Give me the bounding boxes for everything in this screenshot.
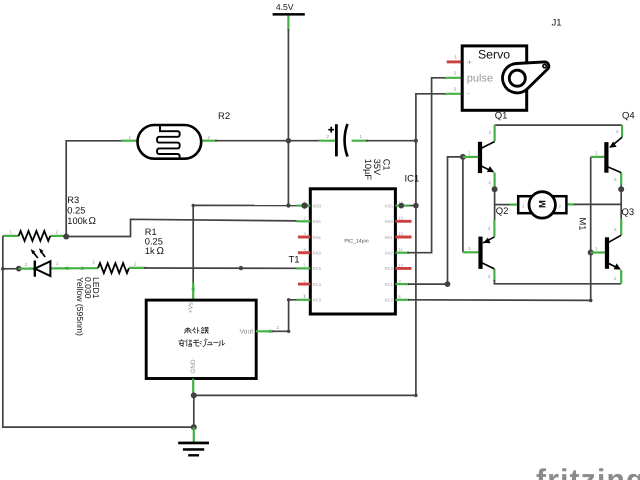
svg-text:1: 1 [468, 246, 471, 251]
svg-text:RA0: RA0 [385, 219, 394, 224]
node Q1 emitter / motor junction [492, 186, 498, 192]
svg-text:2: 2 [327, 134, 330, 139]
svg-text:Q3: Q3 [622, 207, 635, 218]
svg-text:fritzing: fritzing [536, 464, 640, 480]
svg-text:C135V10µF: C135V10µF [363, 159, 392, 181]
wire Q1 collector to Q4 emitter (top rail) [495, 124, 622, 126]
svg-text:Vout: Vout [240, 328, 254, 335]
svg-text:RA2: RA2 [385, 251, 394, 256]
transistor Q4 (PNP mirrored) [591, 125, 622, 185]
svg-text:7: 7 [304, 294, 307, 299]
node Q4 collector junction [618, 186, 624, 192]
svg-text:8: 8 [399, 294, 402, 299]
svg-text:RA1: RA1 [385, 235, 394, 240]
svg-text:R1: R1 [145, 227, 157, 237]
wire LED anode to R1 [64, 267, 98, 269]
wire motor right rail [620, 184, 622, 220]
IR receiver module box [146, 300, 256, 378]
power symbol 4.5V [273, 2, 305, 31]
svg-text:T1: T1 [289, 255, 300, 266]
svg-text:M1: M1 [578, 218, 588, 231]
svg-text:RC2: RC2 [385, 298, 394, 303]
svg-text:2: 2 [134, 262, 137, 267]
svg-text:13: 13 [399, 216, 404, 221]
node R3/LDR junction [63, 234, 69, 240]
transistor Q3 (NPN mirrored) [591, 219, 622, 284]
svg-text:Servo: Servo [478, 47, 510, 61]
wire IC pin9 to Q1/Q2 bases [408, 157, 463, 284]
node Q1 base junction [460, 154, 466, 160]
svg-text:2: 2 [56, 230, 59, 235]
photoresistor R2 (LDR) [129, 125, 211, 160]
svg-text:VSS: VSS [385, 203, 394, 208]
svg-text:2: 2 [614, 276, 617, 281]
svg-text:3: 3 [488, 274, 491, 279]
svg-text:+: + [467, 57, 472, 67]
svg-text:4.5V: 4.5V [276, 2, 294, 12]
svg-text:2: 2 [616, 129, 619, 134]
wire 4.5V rail down to IC pin1 net [287, 29, 289, 206]
wire IC pin8 to Q3/Q4 bases [408, 157, 591, 301]
node GND rail / IC pin14 [413, 203, 418, 208]
wire R3 junction to IC pin2 [66, 219, 296, 236]
wire R1 to IC pin5 (T1 net) [144, 267, 297, 269]
svg-text:0.25: 0.25 [67, 206, 85, 216]
svg-text:0.25: 0.25 [145, 237, 163, 247]
wire R2 right lead to 4.5V junction and C1 [201, 140, 217, 142]
svg-text:9: 9 [399, 278, 402, 283]
wire module Vout to IC pin7 [256, 330, 274, 332]
svg-text:R3: R3 [67, 195, 79, 205]
resistor R1 [93, 260, 147, 274]
svg-text:2: 2 [25, 262, 28, 267]
svg-text:4: 4 [304, 247, 307, 252]
svg-text:Q1: Q1 [495, 110, 508, 121]
svg-text:2: 2 [488, 226, 491, 231]
svg-text:R2: R2 [218, 111, 230, 122]
svg-text:3: 3 [489, 130, 492, 135]
node IC pin1 junction [302, 203, 308, 209]
svg-text:+Vs: +Vs [187, 302, 194, 313]
svg-text:3: 3 [614, 227, 617, 232]
label 赤外線 (IR) [184, 327, 209, 333]
wire module GND to ground [192, 379, 194, 394]
svg-text:3: 3 [614, 177, 617, 182]
svg-text:RC3: RC3 [313, 298, 322, 303]
svg-text:-: - [467, 88, 470, 98]
node IC pin14 junctions (top) [399, 203, 405, 209]
node GND rail / C1 [414, 139, 418, 143]
svg-text:2: 2 [208, 135, 211, 140]
svg-text:1k: 1k [145, 246, 155, 256]
svg-text:1: 1 [468, 151, 471, 156]
svg-text:M: M [537, 200, 548, 208]
svg-text:RC1: RC1 [385, 282, 394, 287]
svg-text:pulse: pulse [467, 73, 493, 85]
svg-text:5: 5 [304, 263, 307, 268]
wire rail to LED cathode [3, 268, 19, 270]
svg-text:Q4: Q4 [622, 111, 635, 122]
IC1 PIC_14pin [297, 189, 412, 314]
transistor Q1 (NPN) [463, 125, 495, 189]
svg-text:Ω: Ω [157, 246, 165, 257]
svg-text:1: 1 [56, 261, 59, 266]
svg-text:VDD: VDD [313, 203, 322, 208]
LED LED1 [19, 248, 68, 277]
svg-text:RA3: RA3 [313, 251, 322, 256]
wire C1 to GND rail [366, 140, 416, 142]
svg-text:RA4: RA4 [313, 235, 322, 240]
svg-text:2: 2 [304, 216, 307, 221]
svg-text:100k: 100k [67, 216, 88, 226]
wire left ground rail [3, 236, 194, 427]
node IC pin1 junction (top) [302, 203, 308, 209]
node LED cathode junction [16, 266, 22, 272]
svg-text:2: 2 [277, 325, 280, 330]
svg-text:1: 1 [10, 230, 13, 235]
svg-text:LED10.030Yellow (595nm): LED10.030Yellow (595nm) [75, 277, 101, 336]
node ground junction 1 [191, 392, 197, 398]
svg-text:1: 1 [595, 246, 598, 251]
wire LDR pin1 down to R3 junction [65, 140, 67, 237]
resistor R3 [3, 230, 64, 241]
wire motor left rail [494, 189, 496, 220]
transistor Q2 (PNP) [463, 220, 495, 282]
label 受信モジュール (receiver module) [179, 339, 225, 347]
svg-text:Ω: Ω [89, 216, 97, 227]
svg-text:11: 11 [399, 247, 404, 252]
svg-text:J1: J1 [552, 18, 562, 29]
node Q3 base junction [588, 250, 594, 256]
wire ground line to GND rail (Vss) [194, 94, 446, 396]
svg-text:GND: GND [190, 359, 197, 373]
svg-text:3: 3 [304, 231, 307, 236]
servo J1 [446, 46, 549, 110]
svg-text:1: 1 [360, 134, 363, 139]
wire Q2 collector to Q3 emitter [494, 280, 621, 284]
svg-text:10: 10 [399, 263, 404, 268]
svg-text:3: 3 [454, 87, 457, 92]
node pin9 corner [445, 281, 451, 287]
svg-text:6: 6 [304, 278, 307, 283]
svg-text:12: 12 [399, 231, 404, 236]
svg-text:1: 1 [595, 151, 598, 156]
wire Q1 base to Q2 base [462, 157, 464, 252]
wire LDR R2 left lead [66, 140, 124, 142]
wire +Vs net: IC pin1 to module [193, 204, 304, 206]
svg-text:RC5: RC5 [313, 266, 322, 271]
svg-text:2: 2 [454, 71, 457, 76]
motor M1 [510, 192, 576, 218]
svg-text:IC1: IC1 [405, 174, 420, 185]
svg-text:RC4: RC4 [313, 282, 322, 287]
node ground junction 2 [191, 424, 197, 430]
node 4.5V/R2/C1 junction [286, 138, 291, 143]
ground symbol [178, 427, 209, 456]
svg-text:RA5: RA5 [313, 219, 322, 224]
capacitor C1 (electrolytic) [319, 124, 368, 157]
svg-text:Q2: Q2 [496, 206, 509, 217]
svg-text:1: 1 [93, 260, 96, 265]
wire IC pin11 to servo pulse [407, 78, 446, 253]
svg-text:PIC_14pin: PIC_14pin [344, 238, 368, 244]
svg-text:1: 1 [455, 55, 458, 60]
svg-text:2: 2 [489, 180, 492, 185]
svg-text:1: 1 [129, 135, 132, 140]
svg-text:RC0: RC0 [385, 266, 394, 271]
